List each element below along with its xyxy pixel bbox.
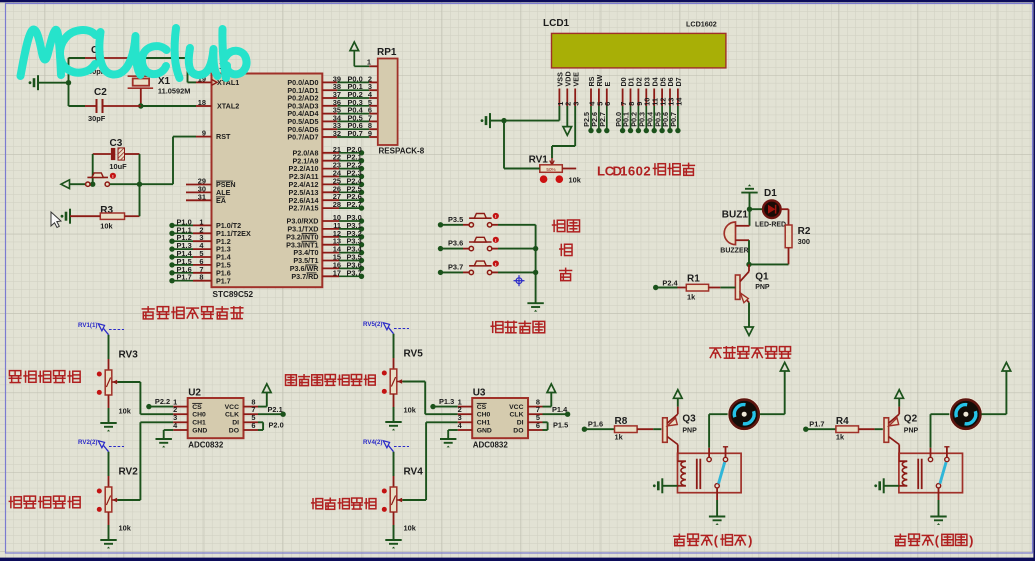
svg-text:P0.7: P0.7 [669,112,678,127]
svg-text:P3.7: P3.7 [347,268,362,277]
svg-text:PNP: PNP [682,427,697,434]
svg-text:C2: C2 [94,87,107,98]
svg-text:DO: DO [513,427,523,434]
svg-text:VCC: VCC [509,404,523,411]
svg-text:Q2: Q2 [904,414,918,425]
svg-text:STC89C52: STC89C52 [213,290,254,299]
svg-text:1: 1 [367,57,371,66]
svg-text:P0.7: P0.7 [348,129,363,138]
svg-text:CLK: CLK [225,412,239,419]
svg-text:9: 9 [368,129,372,138]
svg-text:P1.4: P1.4 [552,405,568,414]
svg-text:RV4(2): RV4(2) [363,439,383,446]
svg-text:GND: GND [192,427,207,434]
svg-text:P2.2: P2.2 [155,397,170,406]
svg-text:RV2: RV2 [119,467,139,478]
svg-text:RV1: RV1 [529,155,549,166]
svg-text:CS: CS [477,404,487,411]
svg-text:XTAL2: XTAL2 [217,102,239,111]
svg-text:LCD1: LCD1 [543,18,570,29]
svg-text:DO: DO [229,427,239,434]
svg-text:P3.6: P3.6 [448,239,463,248]
svg-text:P2.7: P2.7 [598,112,607,127]
svg-text:6: 6 [628,163,635,178]
svg-text:6: 6 [251,421,255,430]
svg-text:RV1(1): RV1(1) [78,322,98,329]
svg-text:P2.1: P2.1 [268,405,283,414]
svg-text:ADC0832: ADC0832 [473,440,509,449]
svg-text:X1: X1 [158,76,171,87]
svg-text:6: 6 [536,421,540,430]
svg-text:R1: R1 [687,274,700,285]
svg-text:Q3: Q3 [682,414,696,425]
svg-text:P1.7: P1.7 [177,273,192,282]
svg-text:300: 300 [798,237,810,246]
svg-text:CLK: CLK [510,412,524,419]
svg-text:P1.3: P1.3 [439,397,454,406]
svg-text:LED-RED: LED-RED [755,221,786,228]
svg-text:P3.5: P3.5 [448,215,463,224]
svg-text:1k: 1k [687,293,696,302]
svg-text:RV5(2): RV5(2) [363,321,383,328]
svg-text:CH1: CH1 [192,420,206,427]
svg-text:(: ( [935,533,940,548]
svg-text:R8: R8 [615,416,628,427]
svg-text:8: 8 [199,273,203,282]
svg-text:GND: GND [477,427,492,434]
svg-text:0: 0 [636,163,643,178]
svg-text:DI: DI [517,420,524,427]
svg-text:R2: R2 [798,226,811,237]
svg-text:C3: C3 [110,138,123,149]
svg-text:RESPACK-8: RESPACK-8 [379,147,425,156]
svg-text:P2.0: P2.0 [269,421,284,430]
svg-text:10k: 10k [100,222,113,231]
svg-text:BUZ1: BUZ1 [722,209,749,220]
svg-text:P1.7: P1.7 [216,276,231,285]
svg-text:1: 1 [620,163,627,178]
svg-text:U2: U2 [188,388,201,399]
svg-text:CH0: CH0 [192,412,206,419]
svg-text:P1.7: P1.7 [809,419,824,428]
svg-text:10k: 10k [404,524,417,533]
svg-text:P3.7: P3.7 [448,262,463,271]
svg-text:3: 3 [572,102,581,106]
svg-text:50%: 50% [546,167,555,172]
svg-text:11.0592M: 11.0592M [158,87,190,96]
svg-text:D7: D7 [674,77,683,86]
svg-text:P1.5: P1.5 [553,421,568,430]
svg-text:D1: D1 [764,188,777,199]
svg-text:PNP: PNP [755,284,770,291]
svg-text:1k: 1k [615,433,624,442]
svg-text:10uF: 10uF [109,162,127,171]
svg-text:30pF: 30pF [88,114,106,123]
svg-text:28: 28 [333,200,341,209]
svg-text:RV5: RV5 [404,349,424,360]
svg-text:10k: 10k [119,407,132,416]
svg-text:U3: U3 [473,388,486,399]
svg-text:17: 17 [333,268,341,277]
svg-text:ADC0832: ADC0832 [188,440,224,449]
svg-text:6: 6 [603,102,612,106]
svg-text:(: ( [714,533,719,548]
svg-text:10k: 10k [119,524,132,533]
svg-text:2: 2 [643,163,650,178]
svg-text:LCD1602: LCD1602 [686,20,717,29]
svg-text:CH1: CH1 [477,420,491,427]
svg-text:P2.4: P2.4 [662,278,678,287]
svg-text:CS: CS [192,404,202,411]
svg-text:RST: RST [216,132,231,141]
svg-text:RV4: RV4 [404,467,424,478]
svg-text:): ) [748,533,752,548]
svg-text:1k: 1k [836,433,845,442]
svg-text:): ) [969,533,973,548]
svg-text:VCC: VCC [225,404,239,411]
svg-text:32: 32 [333,129,341,138]
svg-text:R4: R4 [836,416,849,427]
svg-text:14: 14 [674,97,683,106]
svg-text:10k: 10k [404,406,417,415]
svg-text:RV3: RV3 [119,350,139,361]
svg-text:P1.6: P1.6 [588,419,603,428]
svg-text:PNP: PNP [904,427,919,434]
svg-text:P2.7/A15: P2.7/A15 [289,204,319,213]
svg-text:P0.7/AD7: P0.7/AD7 [287,133,318,142]
svg-text:RV2(2): RV2(2) [78,439,98,446]
svg-text:10k: 10k [569,176,582,185]
svg-text:DI: DI [232,420,239,427]
svg-text:BUZZER: BUZZER [720,248,748,255]
svg-text:P2.7: P2.7 [347,200,362,209]
svg-text:VEE: VEE [571,72,580,87]
svg-text:Q1: Q1 [755,272,769,283]
svg-text:CH0: CH0 [477,412,491,419]
svg-text:E: E [603,82,612,87]
svg-text:RP1: RP1 [377,47,397,58]
